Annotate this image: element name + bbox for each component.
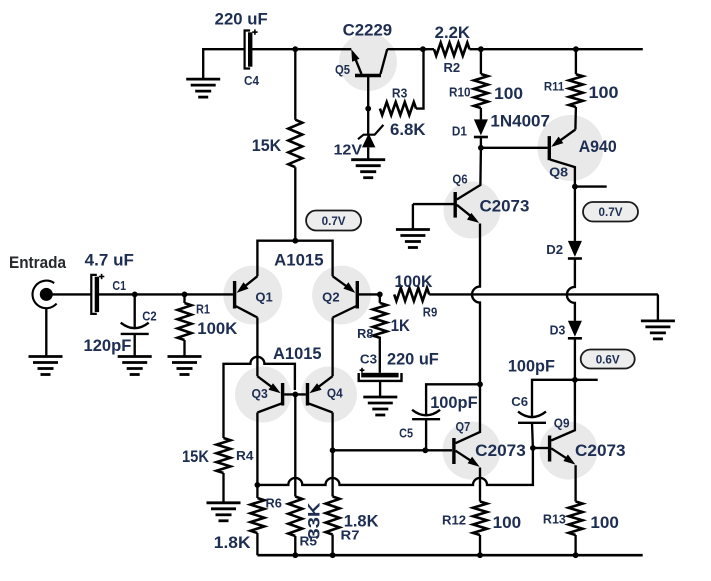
label R10 <box>449 86 471 100</box>
node Q3 Q4 bases <box>292 392 298 398</box>
wire R11 to Q8 emitter <box>574 107 577 130</box>
wire node to R8 <box>379 294 381 303</box>
wire R9 line to right ground <box>429 293 658 295</box>
wire Q5 base to zener <box>367 109 369 135</box>
transistor halo Q8 <box>538 115 604 181</box>
wire R3 to riser corner <box>416 49 423 108</box>
wire R8 to C3 <box>379 337 381 373</box>
svg-text:Entrada: Entrada <box>9 254 67 272</box>
voltage box 0.7V left <box>306 211 361 231</box>
ground at Q6 base <box>396 230 430 248</box>
svg-text:2.2K: 2.2K <box>435 24 470 42</box>
svg-text:Q7: Q7 <box>456 420 471 434</box>
wire node to 15K <box>294 49 296 120</box>
svg-text:0.7V: 0.7V <box>599 205 623 219</box>
wire D1 node to Q8 base <box>481 147 548 149</box>
label C6 <box>511 395 528 409</box>
svg-text:R2: R2 <box>444 61 461 75</box>
node R1 top <box>182 292 188 298</box>
svg-text:15K: 15K <box>252 137 282 155</box>
wire C4 left to ground corner <box>203 49 244 79</box>
transistor Q4 A1015 <box>308 376 333 412</box>
label R5 value 33K rotated <box>306 502 324 539</box>
wire Q4 collector down <box>331 413 333 497</box>
svg-text:R9: R9 <box>423 306 438 320</box>
wire D1 to node <box>480 137 482 148</box>
transistor Q2 A1015 <box>333 276 380 317</box>
transistor Q1 A1015 <box>235 276 258 317</box>
wire 15K to tail node <box>294 167 296 241</box>
label Q7 value C2073 <box>475 442 526 460</box>
svg-text:A1015: A1015 <box>274 251 324 269</box>
wire R10 to D1 <box>480 108 482 119</box>
transistor Q3 A1015 <box>257 376 282 412</box>
label Q1 <box>255 290 272 304</box>
capacitor C4 <box>245 29 258 68</box>
svg-text:R1: R1 <box>196 302 210 316</box>
label D2 <box>546 243 563 257</box>
label Entrada <box>9 254 67 272</box>
svg-text:C2229: C2229 <box>343 22 392 40</box>
svg-text:R6: R6 <box>266 496 282 510</box>
node D1 cathode <box>478 145 484 151</box>
wire zener to ground <box>367 147 369 159</box>
svg-text:100: 100 <box>493 514 521 532</box>
label C6 value 100pF <box>508 357 555 375</box>
svg-text:D3: D3 <box>550 323 566 337</box>
svg-text:1.8K: 1.8K <box>214 534 251 552</box>
wire rail continues from Q5 collector <box>387 48 423 50</box>
resistor R4 15K <box>217 438 231 473</box>
svg-text:C1: C1 <box>112 279 126 293</box>
transistor halo Q1 <box>223 266 282 325</box>
wire Q6 emitter down with hop over output line <box>472 224 480 385</box>
label D3 <box>550 323 566 337</box>
label C1 <box>112 279 126 293</box>
svg-text:Q6: Q6 <box>452 173 467 187</box>
node C5 top on Q6 emitter line <box>477 381 483 387</box>
wire R13 to rail <box>574 535 576 555</box>
label 12V <box>334 142 363 159</box>
label Q2 <box>322 290 339 304</box>
svg-text:120pF: 120pF <box>84 337 132 355</box>
wire C2 node to R1 node <box>135 293 185 295</box>
label R8 <box>357 327 373 341</box>
node top rail at R3 riser <box>420 46 426 52</box>
transistor Q5 C2229 <box>351 49 387 108</box>
wire top rail to Q5 emitter <box>295 48 351 50</box>
label Q6 <box>452 173 467 187</box>
label C2 value 120pF <box>84 337 132 355</box>
label C3 value 220 uF <box>387 350 439 368</box>
ground below C2 <box>118 357 152 375</box>
node R7 rail <box>330 552 336 558</box>
diode D3 <box>568 321 582 339</box>
wire output stub right of D3 node <box>575 379 598 381</box>
wire jack to ground <box>45 308 47 357</box>
ground below jack <box>29 357 63 375</box>
capacitor C2 120pF <box>121 323 149 334</box>
wire Q8 collector to D2 <box>574 187 576 241</box>
label Q9 <box>554 416 570 430</box>
label R1 <box>196 302 210 316</box>
wire C6 top branch <box>532 380 575 417</box>
transistor Q9 C2073 <box>533 380 576 465</box>
node R12 rail <box>477 552 483 558</box>
wire R4 top bar with hop <box>224 357 295 438</box>
wire Q8 collector stub right <box>575 185 607 187</box>
svg-text:100pF: 100pF <box>430 394 477 412</box>
wire R1 node to Q1 base <box>185 293 234 295</box>
wire tail bar <box>257 241 332 277</box>
svg-text:R13: R13 <box>543 513 566 527</box>
wire C5 top branch <box>426 384 480 415</box>
svg-text:12V: 12V <box>334 142 363 159</box>
svg-text:100: 100 <box>589 84 619 102</box>
resistor 15K upper <box>288 120 302 168</box>
wire drive line to Q9 base column <box>257 448 533 485</box>
label R7 value 1.8K <box>344 513 379 531</box>
svg-text:C2073: C2073 <box>480 197 530 215</box>
label C4 value 220 uF <box>215 11 268 29</box>
svg-text:C2073: C2073 <box>575 442 626 460</box>
resistor R9 100K <box>394 288 429 301</box>
svg-text:220 uF: 220 uF <box>215 11 268 29</box>
label R9 <box>423 306 438 320</box>
node top rail at R11 <box>573 46 579 52</box>
label R8 value 1K <box>391 317 410 335</box>
node Q4 collector wire <box>330 447 336 453</box>
svg-text:Q1: Q1 <box>255 290 272 304</box>
svg-text:R11: R11 <box>544 79 565 93</box>
svg-text:R4: R4 <box>236 449 254 463</box>
label C3 <box>360 353 377 367</box>
svg-text:100: 100 <box>590 514 619 532</box>
wire R2 to R10 node <box>470 48 481 50</box>
transistor halo Q6 <box>444 182 501 239</box>
ground below C4 left <box>186 79 220 97</box>
ground right output <box>641 321 675 339</box>
svg-text:C2: C2 <box>142 309 156 323</box>
wire Q7 emitter to R12 <box>479 468 481 502</box>
svg-text:Q5: Q5 <box>335 63 350 77</box>
resistor R1 100K <box>178 303 192 340</box>
label R11 value 100 <box>589 84 619 102</box>
transistor Q6 C2073 <box>413 148 481 223</box>
svg-text:1N4007: 1N4007 <box>490 113 550 131</box>
label Q4 <box>327 386 343 400</box>
label R6 <box>266 496 282 510</box>
wire C5 bottom lead <box>425 419 427 450</box>
label R3 value 6.8K <box>390 121 426 139</box>
label A1015 upper <box>274 251 324 269</box>
label Q9 value C2073 <box>575 442 626 460</box>
svg-text:1K: 1K <box>391 317 410 335</box>
label R2 <box>444 61 461 75</box>
zener diode 12V <box>358 125 383 147</box>
node top rail at R10 <box>478 46 484 52</box>
svg-text:100K: 100K <box>395 273 433 291</box>
node tail 15K <box>292 238 298 244</box>
svg-text:Q9: Q9 <box>554 416 570 430</box>
label R6 value 1.8K <box>214 534 251 552</box>
wire C4 to node <box>252 48 296 50</box>
svg-text:R7: R7 <box>341 528 360 542</box>
label D1 value 1N4007 <box>490 113 550 131</box>
node D3 output <box>572 377 578 383</box>
resistor R8 1K <box>373 303 387 338</box>
node R5 rail <box>292 552 298 558</box>
label R12 value 100 <box>493 514 521 532</box>
wire R2 left lead <box>423 48 434 50</box>
svg-text:100K: 100K <box>197 320 237 338</box>
label R9 value 100K <box>395 273 433 291</box>
label R12 <box>442 513 466 527</box>
wire Q3 base to Q4 base <box>284 393 306 395</box>
svg-text:Q3: Q3 <box>252 387 268 401</box>
label Q8 <box>549 164 568 179</box>
svg-text:Q8: Q8 <box>549 164 568 179</box>
svg-text:D1: D1 <box>452 125 467 139</box>
resistor R7 1.8K <box>326 497 340 535</box>
wire output line corner down <box>657 294 659 321</box>
ground below C3 <box>363 397 397 415</box>
node C5 bottom <box>422 447 428 453</box>
diode D1 1N4007 <box>474 119 488 137</box>
label R2 value 2.2K <box>435 24 470 42</box>
label R11 <box>544 79 565 93</box>
label R13 <box>543 513 566 527</box>
wire rail to right end <box>576 48 643 50</box>
transistor Q8 A940 <box>549 130 575 187</box>
wire Q4 node to Q7 base <box>333 449 452 451</box>
label C2229 <box>343 22 392 40</box>
svg-text:C3: C3 <box>360 353 377 367</box>
wire C1 to C2 node <box>98 293 134 295</box>
label A940 <box>579 138 617 156</box>
resistor R5 33K <box>288 497 302 537</box>
svg-text:A1015: A1015 <box>273 345 322 363</box>
svg-text:220 uF: 220 uF <box>387 350 439 368</box>
resistor R11 100 <box>569 74 583 107</box>
label Q6 value C2073 <box>480 197 530 215</box>
label R3 <box>392 86 407 100</box>
node Q8 collector <box>572 184 578 190</box>
transistor halo Q7 <box>443 422 501 480</box>
transistor halo Q9 <box>540 422 598 480</box>
label R13 value 100 <box>590 514 619 532</box>
label D1 <box>452 125 467 139</box>
ground below zener <box>351 160 385 178</box>
svg-text:C6: C6 <box>511 395 528 409</box>
svg-text:R3: R3 <box>392 86 407 100</box>
label C5 <box>399 426 413 440</box>
wire R12 to rail <box>479 535 481 555</box>
label A1015 lower <box>273 345 322 363</box>
wire Q1 collector down <box>256 318 258 377</box>
label Q3 <box>252 387 268 401</box>
label R5 <box>300 534 318 548</box>
node R13 rail <box>573 552 579 558</box>
resistor R10 100 <box>474 74 488 108</box>
transistor Q7 C2073 <box>454 384 480 467</box>
svg-text:15K: 15K <box>182 448 209 466</box>
label R1 value 100K <box>197 320 237 338</box>
node Q3 collector drive line <box>255 482 261 488</box>
wire D2 to hop <box>567 259 575 321</box>
transistor halo Q5 <box>339 33 397 91</box>
resistor R2 2.2K <box>434 43 470 56</box>
capacitor C5 100pF <box>412 410 440 419</box>
wire Q3 collector down <box>256 413 258 499</box>
svg-text:R8: R8 <box>357 327 373 341</box>
wire jack to C1 <box>46 293 91 295</box>
wire R4 to ground <box>222 473 224 503</box>
label C1 value 4.7 uF <box>85 252 134 270</box>
wire D3 to node <box>574 338 576 380</box>
RCA jack Entrada <box>33 281 57 309</box>
label R7 <box>341 528 360 542</box>
resistor R6 1.8K <box>250 498 264 533</box>
ground below R1 <box>168 357 202 375</box>
wire C2 to ground <box>134 334 136 357</box>
wire rail to R11 <box>575 49 577 74</box>
transistor halo Q2 <box>312 266 371 325</box>
svg-text:Q4: Q4 <box>327 386 343 400</box>
label 15K upper <box>252 137 282 155</box>
wire R6 to rail corner <box>256 533 258 555</box>
wire Q2 collector down <box>331 318 333 377</box>
svg-text:0.7V: 0.7V <box>322 214 346 228</box>
node Q2 base R8 R9 <box>377 292 383 298</box>
bottom rail <box>257 554 642 557</box>
label 15K lower <box>182 448 209 466</box>
capacitor C1 <box>91 274 104 314</box>
wire R5 to rail <box>294 536 296 555</box>
label R10 value 100 <box>494 85 523 103</box>
node top rail at 15K <box>292 46 298 52</box>
svg-text:100: 100 <box>494 85 523 103</box>
svg-text:0.6V: 0.6V <box>596 352 620 366</box>
label C4 <box>244 74 259 88</box>
capacitor C6 100pF <box>518 412 546 423</box>
resistor R13 100 <box>569 502 583 536</box>
wire C2 lead <box>134 294 136 328</box>
ground below R4 <box>207 503 241 521</box>
voltage box 0.7V right <box>583 202 638 222</box>
svg-text:4.7 uF: 4.7 uF <box>85 252 134 270</box>
wire R7 to rail <box>331 535 333 556</box>
wire R1 to ground <box>183 340 185 357</box>
svg-text:100pF: 100pF <box>508 357 555 375</box>
label Q5 <box>335 63 350 77</box>
wire rail R10 node to R11 node <box>481 48 576 50</box>
svg-text:R5: R5 <box>300 534 318 548</box>
svg-text:6.8K: 6.8K <box>390 121 426 139</box>
wire C3 to ground <box>379 381 381 397</box>
voltage box 0.6V <box>581 350 635 369</box>
svg-text:Q2: Q2 <box>322 290 339 304</box>
transistor halo Q4 <box>301 367 357 423</box>
wire Q9 emitter to R13 <box>574 465 576 501</box>
label C5 value 100pF <box>430 394 477 412</box>
svg-text:D2: D2 <box>546 243 563 257</box>
node Q9 base <box>530 445 536 451</box>
svg-text:C5: C5 <box>399 426 413 440</box>
svg-text:C2073: C2073 <box>475 442 526 460</box>
transistor halo Q3 <box>235 367 291 423</box>
capacitor C3 220uF <box>359 368 402 381</box>
label R4 <box>236 449 254 463</box>
label Q7 <box>456 420 471 434</box>
wire base node to R5 <box>294 394 296 496</box>
node C2 top <box>132 292 138 298</box>
svg-text:R12: R12 <box>442 513 466 527</box>
wire rail to R10 <box>480 49 482 74</box>
label C2 <box>142 309 156 323</box>
wire R1 lead <box>183 294 185 303</box>
svg-text:C4: C4 <box>244 74 259 88</box>
node Q5 base R3 <box>365 106 371 112</box>
diode D2 <box>568 241 582 259</box>
resistor R3 6.8K <box>380 102 416 115</box>
svg-text:A940: A940 <box>579 138 617 156</box>
wire C6 bottom lead <box>531 423 534 448</box>
resistor R12 100 <box>473 502 487 536</box>
wire Q6 base to ground <box>412 204 414 229</box>
svg-text:R10: R10 <box>449 86 471 100</box>
